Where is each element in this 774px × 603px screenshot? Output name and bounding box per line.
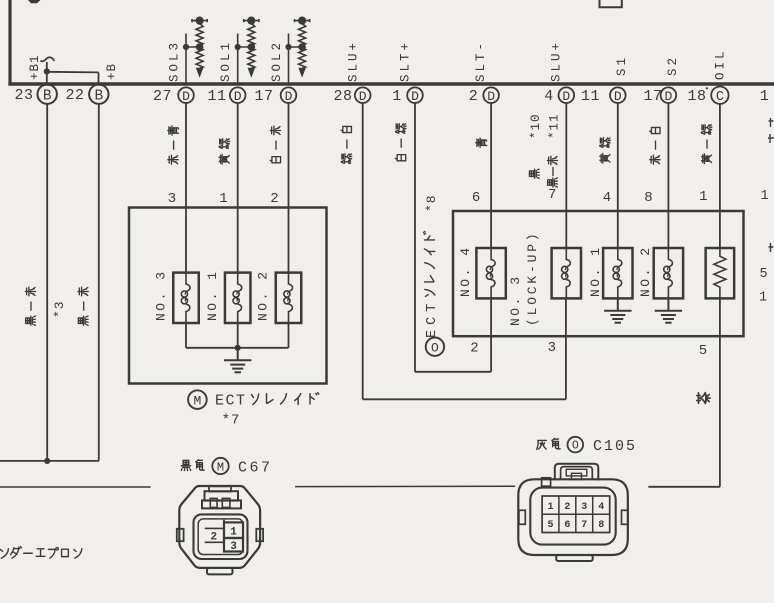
wire SOL2 (288, 34, 290, 85)
svg-text:5: 5 (759, 267, 767, 282)
wire NO.1 to ground (617, 298, 619, 310)
wire +B1 (46, 62, 48, 84)
label NO. 4 (458, 245, 473, 297)
svg-text:D: D (234, 89, 242, 104)
svg-text:NO. 3: NO. 3 (508, 274, 523, 326)
svg-text:3: 3 (168, 191, 176, 207)
junction SOL1 (235, 44, 241, 50)
svg-text:17: 17 (643, 88, 662, 105)
svg-text:7: 7 (581, 520, 587, 531)
wire +B (98, 72, 100, 84)
wire SLU loop bottom (363, 398, 566, 400)
svg-text:1: 1 (759, 290, 767, 305)
wire ground line middle segment (295, 485, 515, 487)
junction SOL2 (285, 44, 291, 50)
svg-text:SLT-: SLT- (474, 40, 488, 82)
wire SOL3 shield link (186, 46, 200, 48)
svg-text:SOL1: SOL1 (219, 40, 233, 82)
svg-text:NO. 1: NO. 1 (205, 269, 220, 321)
svg-text:2: 2 (470, 341, 478, 357)
svg-text:NO. 4: NO. 4 (458, 245, 473, 297)
wire coil NO.2 down (288, 323, 290, 348)
svg-text:(LOCK-UP): (LOCK-UP) (525, 231, 540, 326)
label S2 (666, 55, 680, 76)
wire SOL2 shield link (289, 46, 303, 48)
junction SOL3 (183, 44, 189, 50)
svg-text:4: 4 (544, 88, 554, 105)
label SOL1 (219, 40, 233, 82)
svg-text:1: 1 (230, 526, 237, 538)
label ki-midori (yellow-green) OIL (701, 125, 712, 164)
connector circle B pin 23 (38, 85, 57, 105)
label sorenoido (M) (252, 393, 319, 405)
connector circle D (178, 87, 194, 104)
label NO. 1 (O) (588, 245, 603, 297)
label +B1 (28, 54, 42, 80)
label kuro-iro (black) (181, 460, 204, 471)
wire ECU box left edge (8, 0, 11, 86)
svg-text:D: D (614, 89, 622, 104)
svg-text:NO. 1: NO. 1 (588, 245, 603, 297)
svg-text:2: 2 (210, 531, 217, 543)
junction left wires (44, 458, 50, 464)
speck (706, 87, 708, 89)
wire SOL1 shield link (238, 46, 252, 48)
wire SLU+ (28) down (362, 103, 364, 399)
wire SOL2 to coil NO.2 (288, 103, 290, 274)
svg-text:27: 27 (153, 88, 172, 105)
svg-text:5: 5 (699, 343, 707, 359)
wire common ground link (186, 347, 289, 349)
svg-text:8: 8 (644, 190, 652, 206)
svg-text:1: 1 (219, 191, 227, 207)
svg-text:D: D (182, 89, 190, 104)
label NO. 1 (205, 269, 220, 321)
box ECT solenoid (O) (453, 211, 744, 336)
svg-text:6: 6 (472, 190, 480, 206)
connector circle D (281, 87, 297, 104)
svg-text:ECT: ECT (425, 299, 440, 338)
svg-text:28: 28 (333, 88, 352, 105)
svg-text:D: D (359, 89, 367, 104)
label hai-iro (gray) (537, 438, 560, 449)
svg-text:S2: S2 (666, 55, 680, 76)
label +B (105, 63, 119, 80)
svg-text:M: M (217, 460, 224, 474)
label fender apron (cut) (1, 547, 82, 559)
svg-text:4: 4 (603, 190, 611, 206)
svg-text:*3: *3 (52, 300, 67, 318)
svg-text:OIL: OIL (713, 48, 727, 80)
svg-text:6: 6 (564, 520, 570, 531)
solenoid coil NO.3 (173, 273, 199, 323)
svg-text:+B: +B (105, 63, 119, 80)
label NO. 3 (LOCK-UP) (508, 274, 523, 326)
connector circle O (inline) (426, 338, 444, 356)
connector circle M (C67) (212, 458, 228, 475)
wire SLT loop bottom (415, 371, 491, 373)
wire coil NO.4 down to loop (490, 298, 492, 372)
connector circle M (188, 390, 207, 409)
svg-text:1: 1 (699, 189, 707, 205)
connector C67 drawing (177, 486, 263, 574)
wire S2 to coil NO.2 (667, 103, 669, 247)
ground (below NO.1) (604, 298, 631, 322)
label kuro-aka (black-red) 22B (78, 287, 88, 325)
label aka-ao (red-blue) (168, 126, 179, 164)
svg-text:C105: C105 (593, 438, 637, 455)
svg-text:1: 1 (760, 88, 770, 105)
svg-text:+B1: +B1 (28, 54, 42, 80)
svg-text:D: D (285, 89, 293, 104)
svg-text:M: M (193, 393, 201, 408)
junction +B1/+B link (44, 68, 50, 74)
solenoid coil NO.1 (O) (603, 248, 632, 298)
box ECT solenoid (M) (129, 208, 327, 384)
svg-text:S1: S1 (615, 55, 629, 76)
connector circle D (230, 87, 246, 104)
wire 23B black-red (46, 104, 48, 461)
label shiro-midori (white-green) (395, 124, 406, 161)
svg-text:ECT: ECT (215, 393, 247, 410)
noise suppressor SOL2 (295, 17, 310, 75)
ground (inside M box) (224, 348, 251, 372)
label ao (blue) (476, 138, 487, 147)
svg-text:SOL3: SOL3 (168, 40, 182, 82)
wire OIL to resistor (719, 104, 721, 247)
noise suppressor SOL3 (192, 17, 207, 75)
label cha (brown) (697, 393, 710, 404)
label sorenoido vertical (424, 231, 435, 296)
svg-text:SLU+: SLU+ (346, 40, 360, 82)
label midori-shiro (green-white) (341, 126, 352, 163)
solenoid coil NO.3 LOCK-UP (552, 248, 581, 298)
svg-text:3: 3 (230, 541, 237, 553)
wire SOL3 to coil NO.3 (185, 103, 187, 274)
wire SLU+ (4) to coil LOCK-UP (565, 103, 567, 247)
connector circle B pin 22 (89, 85, 108, 105)
label SLT+ (399, 40, 413, 82)
svg-text:1: 1 (392, 88, 402, 105)
wire to left edge (0, 460, 99, 462)
label NO. 2 (256, 269, 271, 321)
svg-text:3: 3 (581, 502, 587, 513)
label kuro (black) (529, 169, 539, 178)
svg-text:5: 5 (547, 520, 553, 531)
wire coil NO.3 down (185, 323, 187, 348)
wire OIL to ground line (648, 486, 720, 488)
svg-text:C67: C67 (238, 459, 273, 476)
label *3 (52, 300, 67, 318)
svg-text:B: B (43, 88, 52, 104)
svg-text:SOL2: SOL2 (270, 40, 284, 82)
label SLT- (474, 40, 488, 82)
svg-text:*8: *8 (424, 194, 439, 212)
svg-text:3: 3 (548, 340, 556, 356)
connector circle D (355, 87, 371, 104)
svg-text:O: O (431, 340, 439, 355)
svg-text:NO. 2: NO. 2 (256, 269, 271, 321)
svg-text:18: 18 (687, 88, 706, 105)
solenoid coil NO.2 (276, 273, 302, 323)
connector circle D (661, 87, 677, 104)
label kuro-aka (black-red) (547, 156, 557, 187)
bus ECU bottom edge (8, 82, 774, 86)
solenoid coil NO.2 (O) (654, 248, 683, 298)
svg-text:*7: *7 (222, 413, 241, 429)
svg-text:NO. 2: NO. 2 (638, 245, 653, 297)
wire SOL1 to coil NO.1 (237, 103, 239, 274)
wire SOL1 (237, 34, 239, 85)
label ki-midori (yellow-green) (219, 139, 230, 164)
svg-text:*11: *11 (547, 113, 561, 139)
svg-text:SLT+: SLT+ (399, 40, 413, 82)
solenoid coil NO.1 (225, 273, 251, 323)
svg-text:7: 7 (548, 187, 556, 203)
svg-text:8: 8 (598, 520, 604, 531)
connector circle O (C105) (568, 437, 584, 453)
label ki-midori (yellow-green) S1 (600, 138, 611, 163)
wire +B1 to +B link (47, 71, 99, 74)
connector circle D (610, 87, 626, 104)
svg-text:D: D (487, 89, 495, 104)
wire SLT- to coil NO.4 (490, 103, 492, 247)
connector circle D (483, 87, 499, 104)
label aka-shiro (red-white) S2 (650, 127, 660, 164)
svg-text:23: 23 (14, 87, 33, 104)
letter fragment top-left (28, 0, 41, 3)
wire SLT+ down (414, 103, 416, 372)
svg-text:22: 22 (65, 87, 84, 104)
label kuro-aka (black-red) 23B (25, 287, 35, 325)
label NO. 3 (153, 269, 168, 321)
svg-text:NO. 3: NO. 3 (153, 269, 168, 321)
connector C105 drawing (518, 464, 628, 561)
label OIL (713, 48, 727, 80)
label S1 (615, 55, 629, 76)
svg-text:11: 11 (207, 88, 226, 105)
label fragments right edge (768, 118, 774, 252)
label *8 (424, 194, 439, 212)
label SLU+ (28) (346, 40, 360, 82)
svg-text:1: 1 (547, 502, 553, 513)
junction ground (235, 345, 241, 351)
connector circle D (407, 87, 423, 104)
label NO. 2 (O) (638, 245, 653, 297)
svg-text:O: O (572, 440, 579, 453)
svg-text:SLU+: SLU+ (550, 40, 564, 82)
svg-text:2: 2 (270, 191, 278, 207)
noise suppressor SOL1 (244, 17, 259, 75)
label SLU+ (4) (550, 40, 564, 82)
label *10 (529, 113, 543, 139)
svg-text:11: 11 (581, 88, 600, 105)
label *11 (547, 113, 561, 139)
svg-text:1: 1 (760, 189, 768, 204)
svg-text:4: 4 (598, 502, 604, 513)
wire coil NO.3(LOCK-UP) down to loop (565, 298, 567, 399)
svg-text:2: 2 (469, 88, 479, 105)
wire coil NO.1 down (237, 323, 239, 348)
wire ground line left segment (0, 486, 151, 488)
label shiro-aka (white-red) (270, 126, 280, 163)
connector circle D (559, 87, 575, 104)
wire OIL brown down (719, 299, 721, 487)
wire +B1 pigtail hook (41, 57, 55, 61)
svg-text:D: D (664, 89, 672, 104)
resistor OIL (706, 248, 735, 298)
solenoid coil NO.4 (476, 248, 505, 298)
label SOL2 (270, 40, 284, 82)
label SOL3 (168, 40, 182, 82)
connector circle C pin 18 (711, 87, 728, 106)
wire S1 to coil NO.1 (617, 103, 619, 247)
wire SOL3 (185, 34, 187, 85)
svg-text:D: D (562, 89, 570, 104)
svg-text:B: B (94, 88, 103, 104)
ground (below NO.2) (655, 298, 682, 322)
svg-text:17: 17 (254, 88, 273, 105)
wire 22B black-red (98, 104, 100, 461)
label ECT vertical (425, 299, 440, 338)
box fragment (cut off at top) (600, 0, 622, 7)
svg-text:*10: *10 (529, 113, 543, 139)
svg-text:D: D (411, 89, 419, 104)
svg-text:2: 2 (564, 502, 570, 513)
svg-text:C: C (716, 90, 724, 105)
